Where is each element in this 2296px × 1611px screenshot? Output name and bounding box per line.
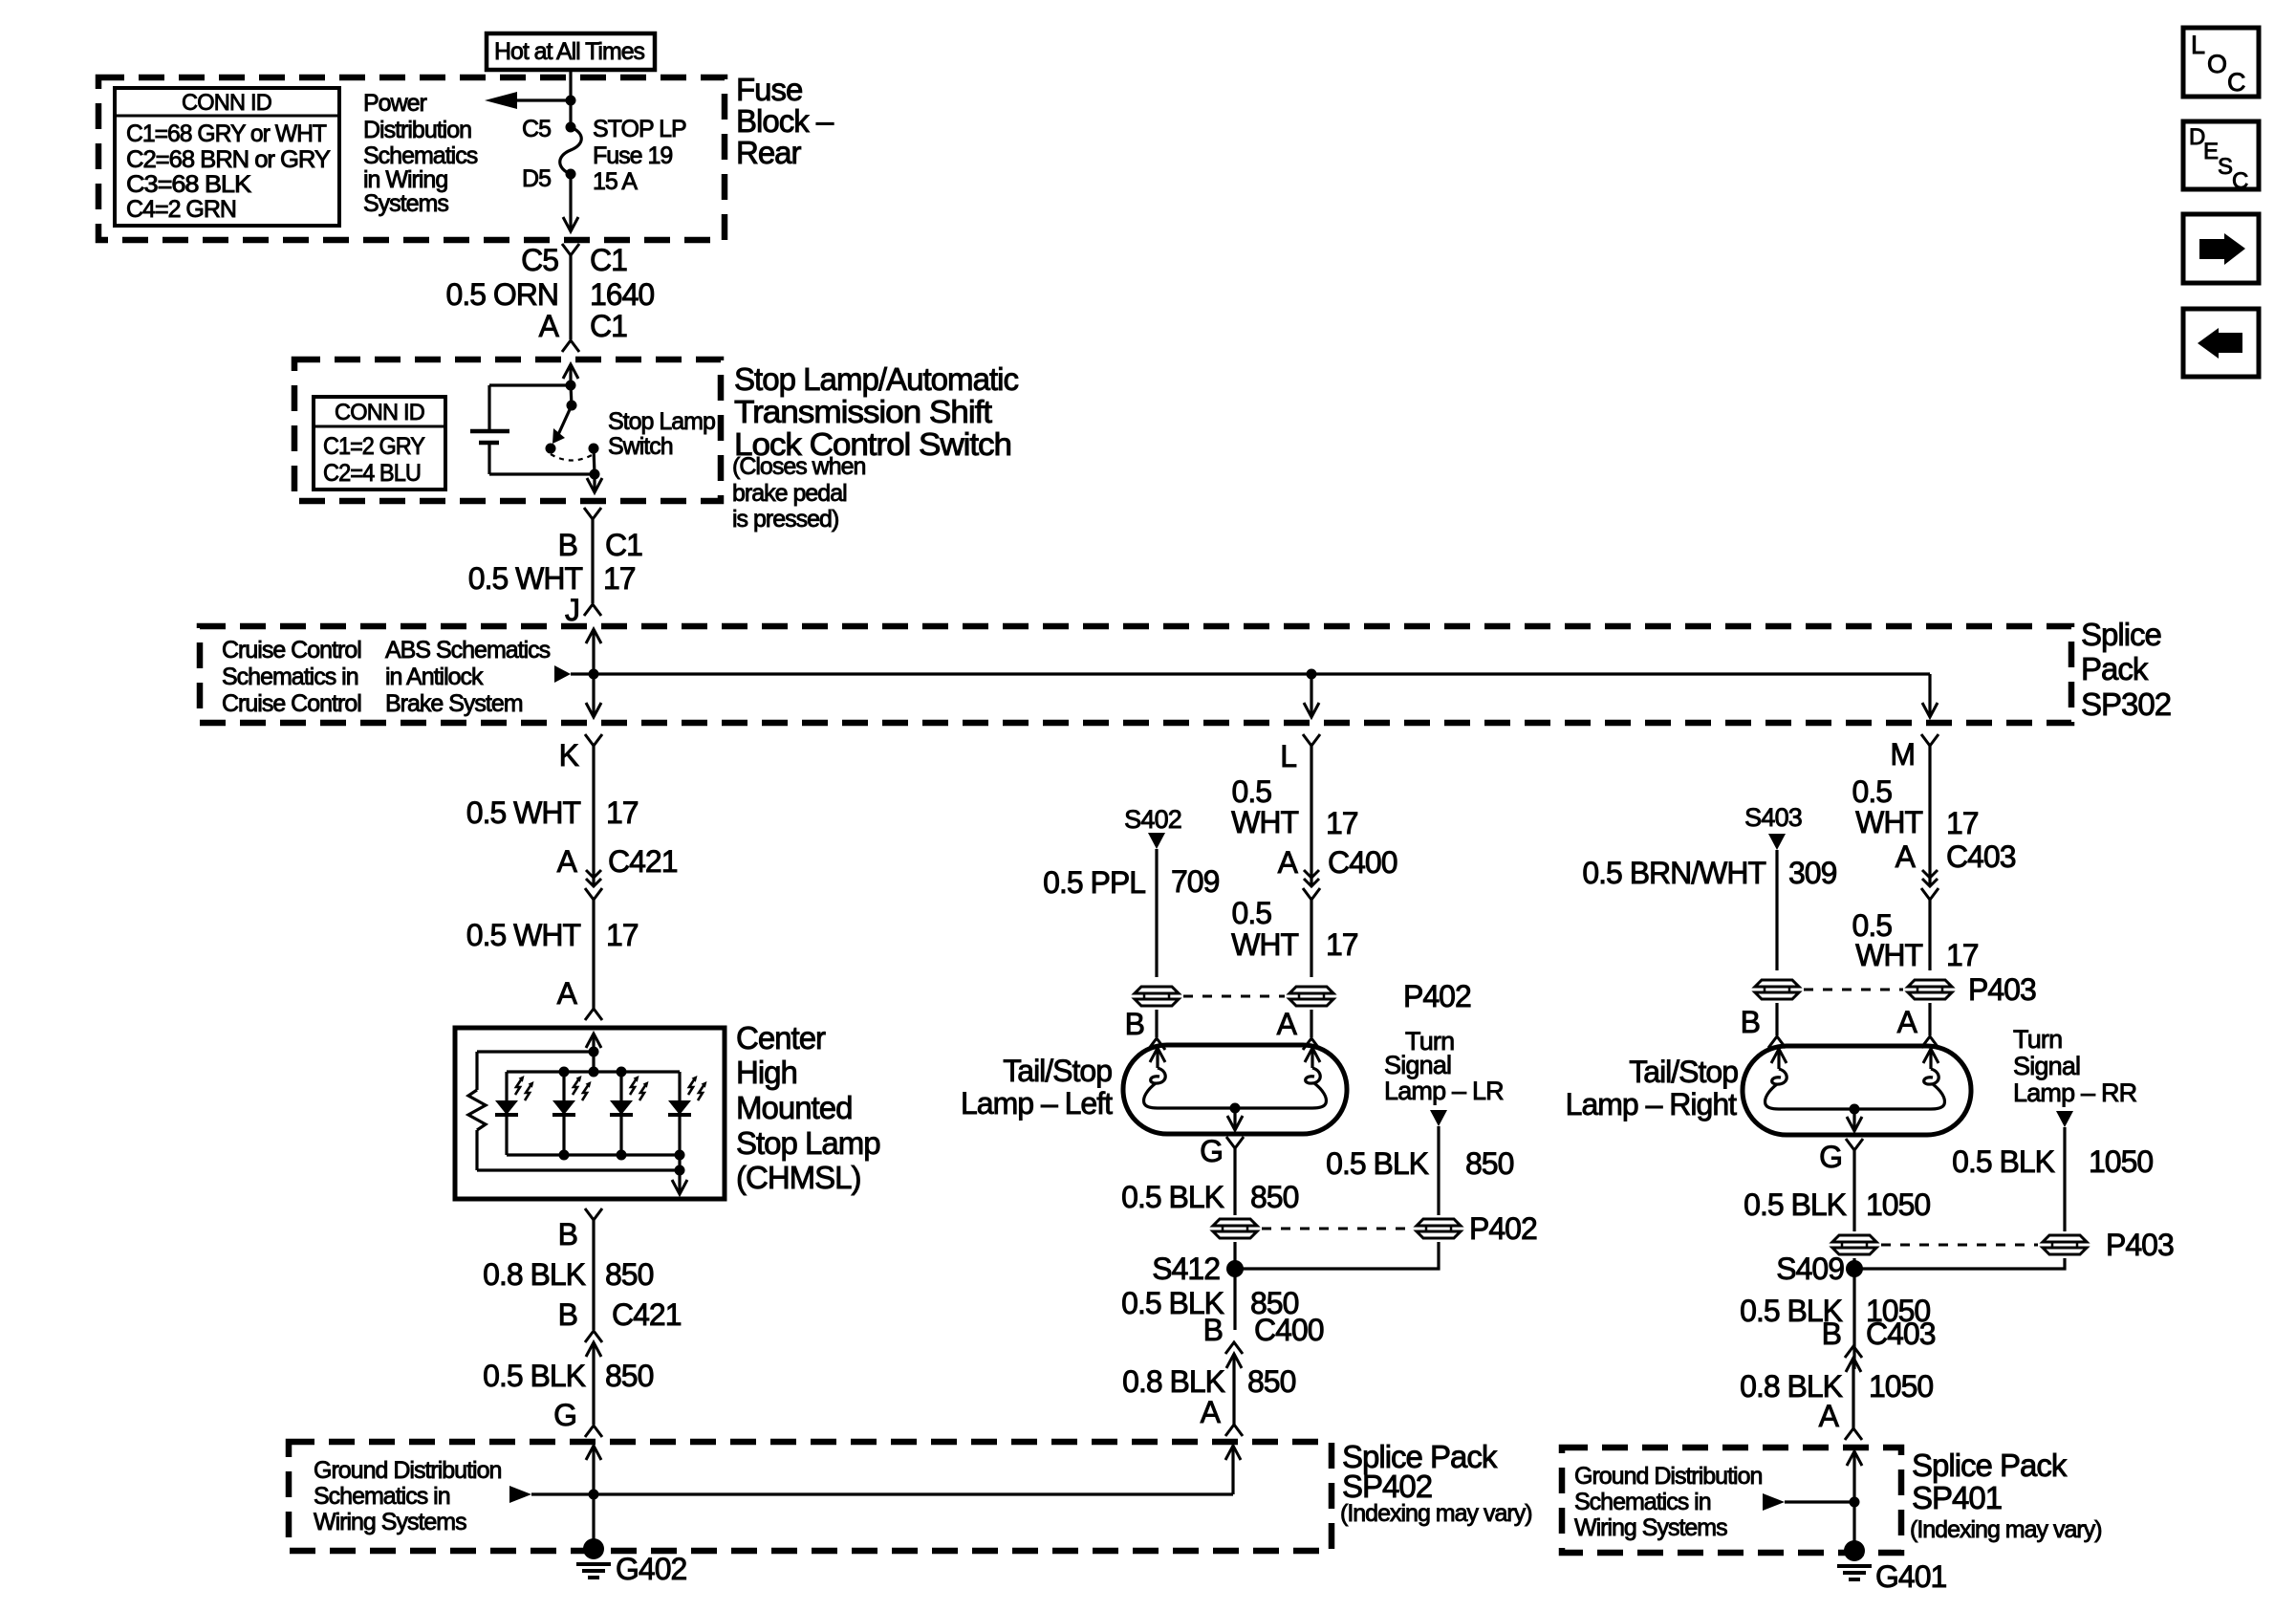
- LED D4: [678, 1072, 681, 1100]
- switch travel dashed arc: [551, 454, 594, 461]
- svg-text:0.5 PPL: 0.5 PPL: [1043, 865, 1145, 900]
- inline connector P403 (upper left half): [1755, 980, 1799, 999]
- connector fork M below SP302: [1921, 734, 1939, 746]
- svg-text:G: G: [553, 1398, 576, 1432]
- wire: resistor leg upper: [475, 1052, 478, 1090]
- svg-text:brake pedal: brake pedal: [732, 480, 847, 507]
- node: splice S409: [1846, 1260, 1863, 1277]
- svg-text:P403: P403: [2106, 1228, 2174, 1262]
- connector fork L below SP302: [1303, 734, 1320, 746]
- svg-text:0.5: 0.5: [1852, 774, 1893, 809]
- svg-text:Stop Lamp/Automatic: Stop Lamp/Automatic: [734, 361, 1018, 397]
- svg-text:G402: G402: [616, 1552, 686, 1586]
- svg-text:Lamp – LR: Lamp – LR: [1384, 1077, 1504, 1105]
- wire: L drop inside SP302: [1310, 674, 1312, 716]
- svg-text:S403: S403: [1744, 803, 1802, 832]
- svg-text:850: 850: [1465, 1146, 1514, 1181]
- svg-text:C2=4 BLU: C2=4 BLU: [323, 460, 421, 487]
- svg-text:is pressed): is pressed): [732, 506, 838, 533]
- svg-text:C3=68 BLK: C3=68 BLK: [126, 171, 251, 198]
- svg-text:0.5: 0.5: [1232, 896, 1272, 930]
- power label box "Hot at All Times": [487, 33, 655, 70]
- splice pack SP302 dashed boundary: [200, 626, 2071, 723]
- svg-text:Fuse 19: Fuse 19: [593, 142, 672, 169]
- inline connector P402 (upper left half): [1135, 987, 1179, 1006]
- svg-text:S409: S409: [1776, 1252, 1844, 1286]
- SECTION: corner icons: [2183, 28, 2259, 377]
- switch blade pivot node: [567, 401, 577, 411]
- svg-text:C: C: [2232, 168, 2248, 194]
- node: junction at G402 leg: [589, 1490, 599, 1500]
- wire: resistor leg lower: [475, 1130, 478, 1170]
- svg-text:0.5 WHT: 0.5 WHT: [468, 561, 583, 596]
- svg-text:0.5 BLK: 0.5 BLK: [1952, 1144, 2055, 1179]
- wire: K leg inside SP302 (up arrow): [586, 629, 601, 643]
- node: splice S412: [1226, 1260, 1244, 1277]
- svg-text:ABS Schematics: ABS Schematics: [385, 637, 551, 664]
- svg-text:C421: C421: [608, 844, 678, 879]
- node: feed junction: [589, 1047, 599, 1057]
- svg-text:1050: 1050: [1869, 1369, 1933, 1404]
- wire: loop left vertical lower: [487, 443, 490, 474]
- svg-text:C1: C1: [605, 528, 642, 562]
- wire: outer top rail: [477, 1050, 594, 1053]
- svg-text:17: 17: [1326, 806, 1358, 840]
- lamp filament B post: [1771, 1049, 1787, 1063]
- SECTION: splice pack SP302: [200, 617, 2171, 773]
- svg-text:in Wiring: in Wiring: [363, 166, 447, 193]
- svg-text:D5: D5: [522, 165, 551, 192]
- svg-text:C1: C1: [590, 309, 627, 343]
- inline connector P402 (lower left half): [1213, 1219, 1257, 1238]
- svg-text:Pack: Pack: [2081, 651, 2149, 686]
- svg-text:SP401: SP401: [1912, 1480, 2002, 1515]
- wire: K branch lower segment: [592, 900, 595, 1009]
- svg-text:L: L: [1280, 739, 1296, 773]
- dashed tie between lower P403 halves: [1881, 1244, 2038, 1247]
- connector fork G at ground box: [585, 1426, 602, 1437]
- svg-text:B: B: [558, 1217, 577, 1252]
- svg-text:Wiring Systems: Wiring Systems: [1574, 1514, 1727, 1541]
- wire: filament common rail: [1779, 1107, 1931, 1110]
- connector C1/C5 inline pair below fuse block: [562, 244, 579, 255]
- svg-text:C1=68 GRY or WHT: C1=68 GRY or WHT: [126, 120, 327, 147]
- svg-text:850: 850: [605, 1359, 654, 1393]
- svg-text:S402: S402: [1124, 805, 1181, 834]
- svg-text:A: A: [557, 976, 578, 1011]
- svg-text:C403: C403: [1946, 839, 2016, 874]
- tail/stop lamp right housing (oval): [1743, 1046, 1971, 1135]
- svg-text:WHT: WHT: [1231, 927, 1298, 962]
- connector fork B below CHMSL: [585, 1208, 602, 1220]
- svg-text:C5: C5: [521, 243, 558, 277]
- wire: SP402 A leg (up arrow): [1231, 1446, 1234, 1494]
- wire: M branch upper segment: [1928, 746, 1931, 885]
- svg-text:Turn: Turn: [2013, 1025, 2062, 1054]
- svg-text:(Indexing may vary): (Indexing may vary): [1910, 1516, 2102, 1543]
- svg-text:(Indexing may vary): (Indexing may vary): [1340, 1500, 1532, 1527]
- svg-text:Cruise Control: Cruise Control: [222, 690, 361, 717]
- svg-text:CONN ID: CONN ID: [182, 90, 271, 116]
- tail/stop lamp left housing (oval): [1123, 1045, 1347, 1134]
- svg-text:17: 17: [603, 561, 636, 596]
- svg-text:Center: Center: [736, 1020, 826, 1056]
- svg-text:0.5 BLK: 0.5 BLK: [483, 1359, 586, 1393]
- connector C1 below switch: [584, 508, 601, 519]
- CONN ID table (fuse block): [115, 88, 339, 226]
- wire: ground bus with feed arrow: [509, 1486, 531, 1503]
- svg-text:High: High: [736, 1055, 797, 1090]
- node: switch output junction: [590, 469, 600, 480]
- ground G401: [1844, 1540, 1865, 1561]
- wire: L branch upper segment: [1310, 746, 1312, 885]
- svg-text:709: 709: [1171, 864, 1220, 899]
- DESC nav box: [2183, 121, 2259, 189]
- svg-text:M: M: [1890, 737, 1915, 772]
- wire: ground bus with feed arrow (right): [1763, 1493, 1785, 1511]
- wire: lamp ground through S409: [1852, 1258, 1855, 1369]
- node: splice junction at L: [1307, 669, 1317, 680]
- svg-text:Lamp – Left: Lamp – Left: [961, 1086, 1113, 1121]
- SECTION: K branch + CHMSL: [455, 746, 880, 1437]
- svg-text:L: L: [2191, 31, 2205, 59]
- svg-text:Cruise Control: Cruise Control: [222, 637, 361, 664]
- svg-text:Rear: Rear: [736, 135, 802, 170]
- lamp filament A post: [1923, 1049, 1939, 1063]
- svg-text:SP402: SP402: [1342, 1469, 1432, 1504]
- svg-text:0.5: 0.5: [1232, 774, 1272, 809]
- svg-text:Lamp – Right: Lamp – Right: [1566, 1087, 1737, 1121]
- ground G402: [583, 1538, 604, 1559]
- svg-text:C4=2 GRN: C4=2 GRN: [126, 196, 236, 223]
- svg-text:A: A: [1819, 1399, 1840, 1433]
- wire: turn signal to S409 corner: [1854, 1258, 2065, 1269]
- svg-text:Ground Distribution: Ground Distribution: [314, 1457, 501, 1484]
- turn signal lamp LR feed triangle: [1430, 1110, 1447, 1126]
- LOC nav box: [2183, 28, 2259, 97]
- svg-text:0.5 BLK: 0.5 BLK: [1744, 1187, 1847, 1222]
- svg-text:Mounted: Mounted: [736, 1090, 852, 1125]
- svg-text:0.5 WHT: 0.5 WHT: [466, 795, 581, 830]
- inline connector P403 (lower right half): [2043, 1235, 2087, 1254]
- svg-text:E: E: [2203, 139, 2218, 164]
- switch blade with arrow: [556, 405, 572, 439]
- svg-text:B: B: [558, 1297, 577, 1332]
- svg-text:SP302: SP302: [2081, 686, 2171, 722]
- svg-text:B: B: [558, 528, 577, 562]
- ground distribution / SP401 dashed boundary: [1562, 1448, 1901, 1553]
- wire: LED anode rail: [507, 1070, 680, 1073]
- node: anode rail junctions: [559, 1067, 570, 1078]
- connector fork G below lamp: [1226, 1137, 1244, 1148]
- connector forks at lamp: [1768, 1036, 1786, 1048]
- dashed tie between lower P402 halves: [1262, 1228, 1412, 1230]
- svg-text:B: B: [1125, 1007, 1144, 1041]
- svg-text:0.5 BLK: 0.5 BLK: [1326, 1146, 1429, 1181]
- CHMSL housing box: [455, 1028, 725, 1199]
- wire: L branch lower segment: [1310, 900, 1312, 977]
- svg-text:S: S: [2218, 154, 2232, 180]
- svg-text:C: C: [2227, 68, 2245, 97]
- svg-text:Switch: Switch: [608, 433, 673, 460]
- svg-text:A: A: [1278, 845, 1299, 880]
- wire: loop left vertical upper: [487, 385, 490, 431]
- svg-text:Signal: Signal: [1384, 1051, 1451, 1079]
- wire entering CHMSL (up arrow): [586, 1034, 601, 1048]
- wire: fuse output with down arrow: [569, 174, 572, 231]
- svg-text:A: A: [1897, 1005, 1918, 1039]
- inline connector P402 (lower right half): [1417, 1219, 1461, 1238]
- dashed tie between P403 halves: [1804, 989, 1903, 991]
- svg-text:P402: P402: [1469, 1211, 1537, 1246]
- node: junction at fuse feed: [566, 96, 576, 106]
- svg-text:(Closes when: (Closes when: [732, 453, 866, 480]
- svg-text:C403: C403: [1866, 1317, 1936, 1351]
- connector fork A at SP401: [1845, 1428, 1862, 1440]
- svg-text:0.8 BLK: 0.8 BLK: [483, 1257, 586, 1292]
- lamp filament B post: [1150, 1048, 1165, 1062]
- svg-text:17: 17: [606, 795, 639, 830]
- switch contact left: [546, 444, 556, 454]
- svg-text:O: O: [2207, 50, 2226, 78]
- LED D3: [619, 1072, 622, 1100]
- svg-text:B: B: [1741, 1005, 1760, 1039]
- svg-text:A: A: [557, 844, 578, 879]
- stop lamp switch dashed boundary: [294, 359, 721, 501]
- svg-text:C400: C400: [1328, 845, 1397, 880]
- svg-text:Stop Lamp: Stop Lamp: [608, 408, 715, 435]
- CONN ID table (switch): [314, 397, 445, 490]
- svg-text:A: A: [1277, 1007, 1298, 1041]
- lamp filament A post: [1305, 1048, 1320, 1062]
- wire: turn signal ground drop: [2063, 1127, 2066, 1231]
- SECTION: stop lamp switch: [294, 359, 1018, 627]
- svg-text:15 A: 15 A: [593, 168, 638, 195]
- svg-text:17: 17: [1946, 806, 1979, 840]
- svg-text:C421: C421: [612, 1297, 682, 1332]
- svg-text:0.8 BLK: 0.8 BLK: [1122, 1364, 1225, 1399]
- node: cathode rail junctions: [559, 1150, 570, 1161]
- fuse block dashed boundary: [98, 77, 725, 240]
- svg-text:C1=2 GRY: C1=2 GRY: [323, 433, 425, 460]
- wire: turn signal to S412 corner: [1235, 1242, 1439, 1269]
- svg-text:WHT: WHT: [1231, 805, 1298, 839]
- ground distribution / SP402 dashed boundary: [289, 1442, 1332, 1551]
- wire entering switch (up arrow): [563, 364, 578, 379]
- node: outlet junction: [675, 1165, 685, 1176]
- svg-text:850: 850: [605, 1257, 654, 1292]
- wire: outer bottom rail: [477, 1168, 680, 1171]
- svg-text:Power: Power: [363, 90, 427, 117]
- wire: P402 to lamp (A side): [1310, 1010, 1312, 1037]
- svg-text:Tail/Stop: Tail/Stop: [1629, 1055, 1738, 1089]
- wire: lamp ground outlet: [1852, 1109, 1855, 1130]
- svg-text:WHT: WHT: [1855, 805, 1922, 839]
- turn signal lamp RR feed triangle: [2056, 1111, 2073, 1127]
- wire: G402 leg entering box (up arrow): [586, 1446, 601, 1460]
- svg-text:1050: 1050: [2089, 1144, 2153, 1179]
- wire: K branch upper segment: [592, 746, 595, 885]
- svg-text:B: B: [1203, 1313, 1223, 1347]
- prev-page nav box (left arrow): [2183, 309, 2259, 377]
- wire: G401 leg entering box (up arrow): [1847, 1451, 1862, 1466]
- svg-text:0.5 WHT: 0.5 WHT: [466, 918, 581, 952]
- wire: P403 to lamp (B side): [1775, 1003, 1778, 1035]
- wire: loop bottom horizontal: [489, 472, 595, 475]
- svg-text:0.5 BLK: 0.5 BLK: [1121, 1180, 1224, 1214]
- wire: M drop inside SP302: [1928, 674, 1931, 716]
- inline connector P403 (lower left half): [1832, 1235, 1876, 1254]
- svg-text:17: 17: [1326, 927, 1358, 962]
- wire: switch output with down arrow: [593, 474, 596, 491]
- SECTION: top fuse block: [98, 33, 834, 352]
- svg-text:0.5 ORN: 0.5 ORN: [446, 277, 558, 312]
- dashed tie between P402 halves: [1183, 995, 1285, 998]
- svg-text:1050: 1050: [1866, 1187, 1930, 1222]
- next-page nav box (right arrow): [2183, 214, 2259, 283]
- svg-text:C5: C5: [522, 116, 551, 142]
- wire: CHMSL outlet with down arrow: [678, 1155, 681, 1193]
- svg-text:CONN ID: CONN ID: [335, 400, 424, 425]
- svg-text:17: 17: [1946, 938, 1979, 972]
- SECTION: L branch + left lamp: [961, 746, 1537, 1436]
- battery plates symbol: [470, 429, 509, 434]
- wire: right contact down: [594, 448, 595, 474]
- svg-text:17: 17: [606, 918, 639, 952]
- switch contact right: [589, 444, 599, 454]
- resistor R (CHMSL dropping resistor): [468, 1090, 486, 1130]
- svg-text:C400: C400: [1254, 1313, 1324, 1347]
- connector fork K below SP302: [585, 734, 602, 746]
- svg-text:Tail/Stop: Tail/Stop: [1003, 1054, 1112, 1088]
- svg-text:G: G: [1819, 1140, 1842, 1174]
- svg-text:C1: C1: [590, 243, 627, 277]
- svg-text:Lamp – RR: Lamp – RR: [2013, 1078, 2137, 1107]
- fuse F19 STOP LP symbol: [569, 100, 572, 127]
- wire: P403 to lamp (A side): [1928, 1003, 1931, 1035]
- svg-text:Wiring Systems: Wiring Systems: [314, 1509, 466, 1535]
- svg-text:P403: P403: [1968, 972, 2036, 1007]
- wire: feed drop to LED rail: [592, 1052, 595, 1072]
- node: splice junction at K: [589, 669, 599, 680]
- svg-text:Schematics in: Schematics in: [314, 1483, 450, 1510]
- svg-text:850: 850: [1250, 1180, 1299, 1214]
- connector fork A at SP402: [1225, 1425, 1243, 1436]
- wire: lamp ground outlet: [1233, 1108, 1236, 1129]
- svg-text:Block –: Block –: [736, 103, 834, 139]
- node: junction at G401 leg: [1850, 1497, 1860, 1508]
- svg-text:STOP LP: STOP LP: [593, 116, 686, 142]
- LED D1: [505, 1072, 508, 1100]
- connector fork G below lamp: [1846, 1139, 1863, 1150]
- svg-text:C2=68 BRN or GRY: C2=68 BRN or GRY: [126, 146, 331, 173]
- svg-text:Hot at All Times: Hot at All Times: [494, 38, 644, 65]
- svg-text:WHT: WHT: [1855, 938, 1922, 972]
- svg-text:Brake System: Brake System: [385, 690, 523, 717]
- svg-text:Fuse: Fuse: [736, 72, 802, 107]
- wire from Hot box into fuse block: [569, 70, 572, 100]
- node: lamp common junction: [1850, 1104, 1860, 1115]
- SECTION: M branch + right lamp: [1566, 746, 2174, 1440]
- wire: filament common rail: [1158, 1106, 1312, 1109]
- SECTION: bottom grounds: [289, 1439, 2102, 1594]
- wire: splice bus horizontal with feed arrow: [554, 665, 571, 683]
- svg-text:Systems: Systems: [363, 190, 448, 217]
- wire: lamp ground to S412: [1233, 1242, 1236, 1330]
- wire: LED cathode rail: [507, 1153, 680, 1156]
- LED D2: [562, 1072, 565, 1100]
- svg-text:A: A: [1895, 839, 1917, 874]
- svg-text:850: 850: [1247, 1364, 1296, 1399]
- connector fork at CHMSL: [585, 1009, 602, 1020]
- svg-text:B: B: [1822, 1317, 1841, 1351]
- svg-text:Distribution: Distribution: [363, 117, 471, 143]
- wire: M branch lower segment: [1928, 900, 1931, 970]
- svg-text:A: A: [539, 309, 560, 343]
- wire: loop top horizontal: [489, 383, 571, 386]
- node: lamp common junction: [1230, 1103, 1241, 1114]
- svg-text:Signal: Signal: [2013, 1052, 2080, 1080]
- svg-text:Transmission Shift: Transmission Shift: [734, 394, 992, 429]
- svg-text:Schematics in: Schematics in: [1574, 1489, 1711, 1515]
- svg-text:Splice Pack: Splice Pack: [1912, 1448, 2068, 1483]
- wire: P402 to lamp (B side): [1155, 1010, 1158, 1037]
- wire: turn signal ground drop: [1437, 1126, 1440, 1215]
- svg-text:G: G: [1200, 1134, 1223, 1168]
- svg-text:Splice: Splice: [2081, 617, 2161, 652]
- wire: branch to power distribution (left arrow): [514, 98, 571, 101]
- svg-text:Stop Lamp: Stop Lamp: [736, 1125, 880, 1161]
- svg-text:Schematics in: Schematics in: [222, 664, 358, 690]
- svg-text:K: K: [559, 738, 579, 773]
- svg-text:(CHMSL): (CHMSL): [736, 1160, 861, 1195]
- svg-text:Schematics: Schematics: [363, 142, 478, 169]
- svg-text:P402: P402: [1403, 979, 1471, 1013]
- inline connector P402 (upper right half): [1289, 987, 1333, 1006]
- svg-text:Ground Distribution: Ground Distribution: [1574, 1463, 1762, 1490]
- svg-text:A: A: [1201, 1395, 1222, 1429]
- svg-text:0.5 BRN/WHT: 0.5 BRN/WHT: [1582, 856, 1765, 890]
- svg-text:309: 309: [1788, 856, 1837, 890]
- svg-text:S412: S412: [1152, 1252, 1220, 1286]
- node: switch feed junction: [566, 381, 576, 391]
- svg-text:J: J: [565, 593, 579, 627]
- inline connector P403 (upper right half): [1908, 980, 1952, 999]
- connector forks at lamp: [1148, 1038, 1165, 1050]
- svg-text:1640: 1640: [590, 277, 654, 312]
- svg-text:G401: G401: [1875, 1559, 1946, 1594]
- svg-text:in Antilock: in Antilock: [385, 664, 484, 690]
